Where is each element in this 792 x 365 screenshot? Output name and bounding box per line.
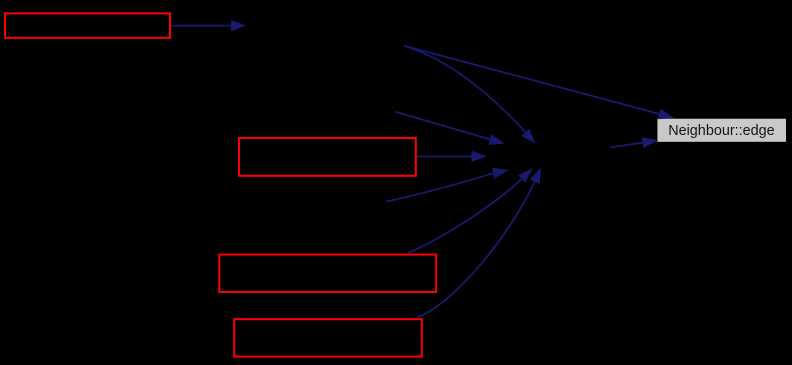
arrowhead nodeD to nodeB [492, 168, 508, 179]
arrowhead box4 to nodeB [530, 168, 541, 184]
arrowhead nodeC to nodeB [488, 134, 504, 145]
wire nodeA to Neighbour::edge [404, 46, 659, 114]
wire box3 to nodeB (curved) [407, 179, 522, 254]
wire box2 to nodeB [417, 155, 472, 157]
node box3 (red, lower) [219, 255, 436, 292]
wire nodeC to nodeB [396, 112, 490, 140]
node box4 (red, bottom) [234, 319, 422, 356]
arrowhead box3 to nodeB [518, 168, 533, 183]
node box2 (red, middle-left) [239, 138, 416, 176]
arrowhead box1 to nodeA [231, 20, 247, 31]
arrowhead box2 to nodeB [472, 151, 487, 162]
arrowhead nodeA to Neighbour::edge [658, 109, 674, 120]
wire nodeB to Neighbour::edge [610, 143, 643, 148]
arrowhead nodeB to Neighbour::edge [642, 137, 658, 148]
wire nodeD to nodeB [386, 173, 493, 201]
wire box4 to nodeB (curved) [417, 182, 535, 318]
wire box1 to nodeA [171, 25, 232, 27]
node box1 (red, top-left) [5, 13, 170, 37]
wire nodeA to nodeB (curved) [404, 46, 526, 133]
arrowhead nodeA to nodeB [521, 129, 535, 144]
svg-text:Neighbour::edge: Neighbour::edge [668, 123, 775, 139]
node Neighbour::edge (gray box) [657, 119, 786, 142]
